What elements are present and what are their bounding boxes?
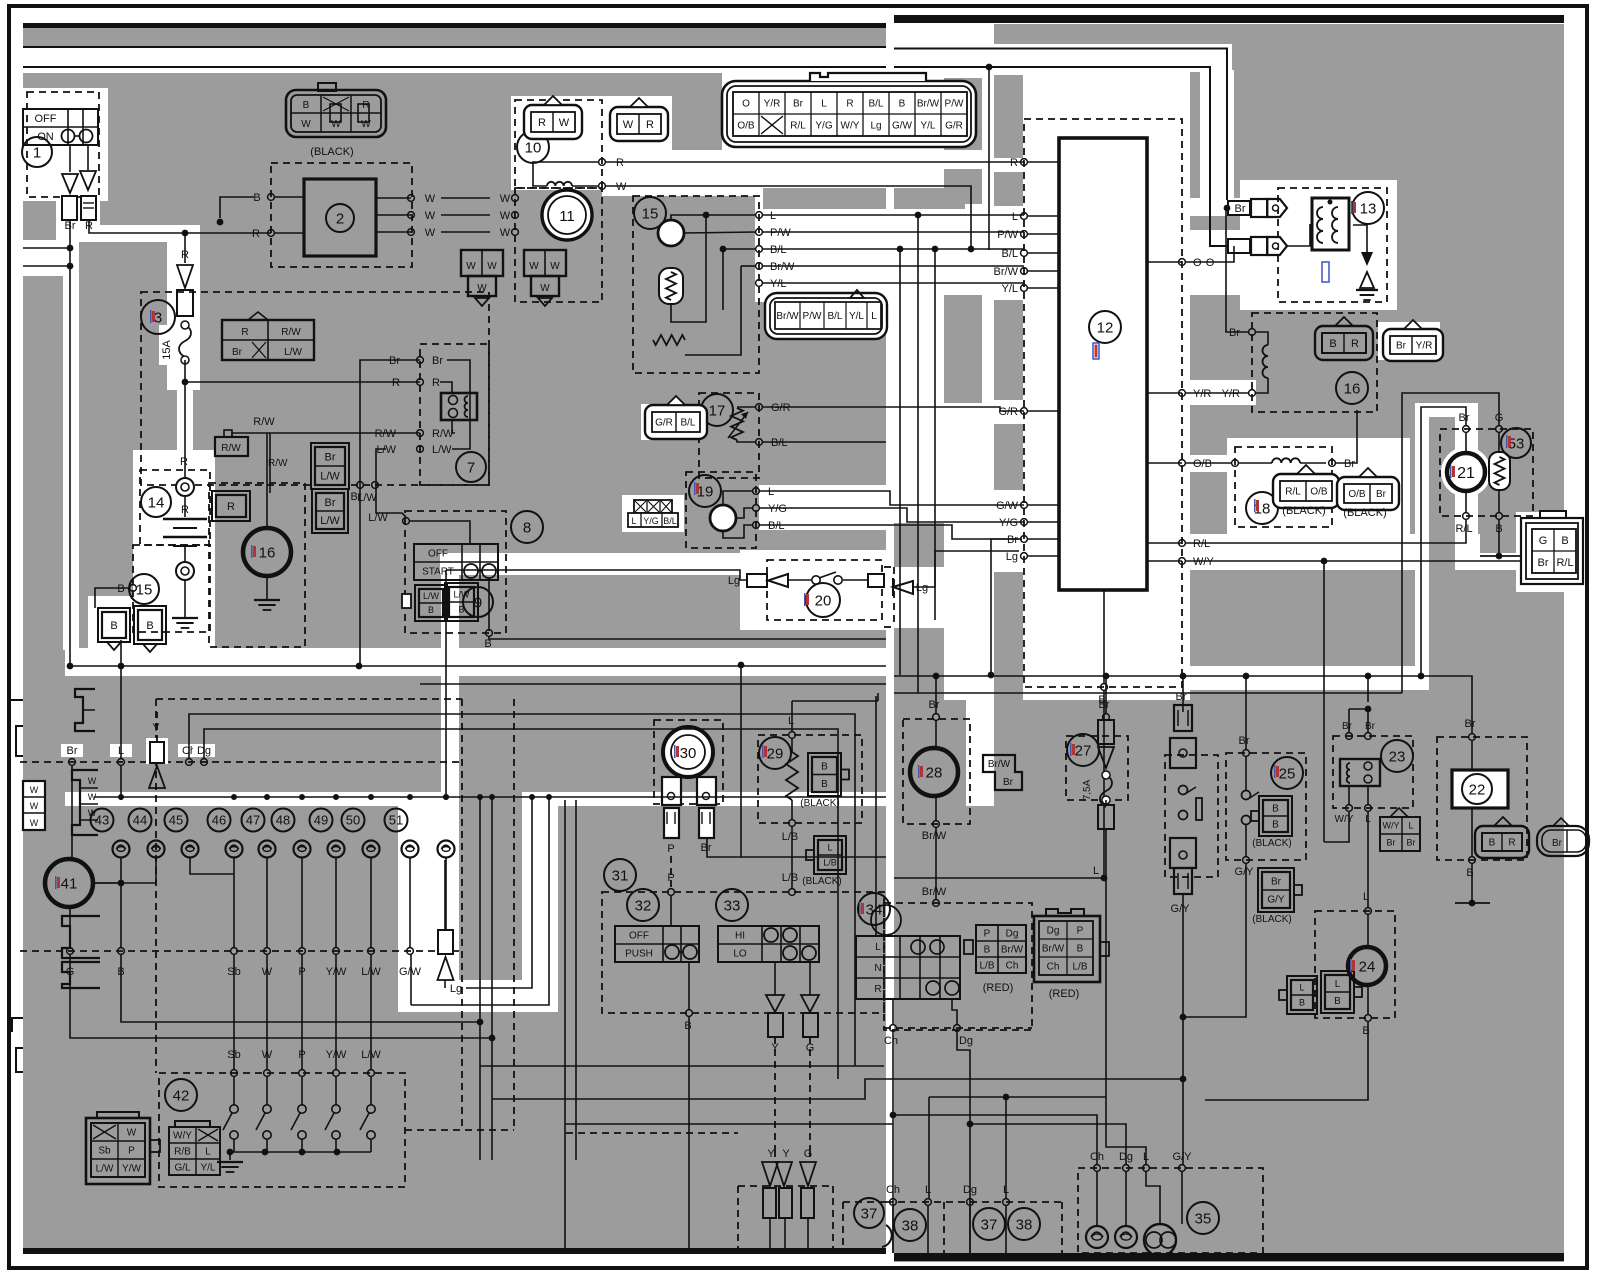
comp34 RED connectors: [976, 925, 1026, 973]
L wire comp23 to comp24: [1367, 811, 1369, 908]
svg-text:44: 44: [133, 813, 147, 828]
svg-text:B/L: B/L: [771, 437, 788, 449]
comp7 ports: [417, 357, 424, 364]
comp21 ports: [1463, 426, 1470, 433]
wire Br down left column: [69, 220, 71, 666]
dashed meter line bottom: [566, 1132, 738, 1134]
L wire to comp34: [875, 696, 877, 936]
ECU Br exit down to rail: [991, 539, 1022, 675]
svg-text:OFF: OFF: [35, 113, 57, 125]
comp19 connector LYGBL: [634, 500, 672, 513]
svg-text:Br/W: Br/W: [922, 886, 947, 898]
svg-text:L: L: [1408, 821, 1413, 831]
svg-text:B: B: [458, 605, 464, 615]
connector R pod: [216, 495, 246, 517]
R/L wire comp21 to ECU: [1186, 519, 1466, 543]
svg-text:Br: Br: [67, 745, 78, 757]
comp30 P wire: [670, 856, 672, 889]
svg-text:35: 35: [1195, 1210, 1212, 1227]
comp16 ground: [266, 576, 268, 600]
comp10 connector R|W: [524, 105, 582, 139]
svg-text:32: 32: [635, 897, 652, 914]
svg-text:W: W: [616, 181, 627, 193]
B rail right page: [741, 856, 886, 858]
svg-text:3: 3: [154, 309, 162, 326]
svg-text:37: 37: [861, 1205, 878, 1222]
svg-text:W: W: [500, 193, 511, 205]
svg-text:L/W: L/W: [357, 492, 377, 504]
comp2 R pin: [268, 230, 275, 237]
svg-text:R: R: [1010, 157, 1018, 169]
svg-text:Br/W: Br/W: [776, 311, 799, 322]
svg-text:Ch: Ch: [1090, 1151, 1104, 1163]
svg-text:START: START: [422, 567, 454, 578]
svg-text:B: B: [821, 779, 828, 790]
L feed comp35: [1106, 1097, 1146, 1165]
thin rule 2 left: [23, 66, 886, 68]
svg-text:Br/W: Br/W: [917, 99, 940, 110]
connector OB/Br: [1337, 477, 1399, 510]
svg-text:B: B: [899, 99, 906, 110]
circled 2: [326, 204, 354, 232]
Ch Dg long wires: [189, 714, 855, 1066]
comp10 ports: [599, 159, 606, 166]
gray islands: [994, 75, 1023, 158]
svg-text:B/L: B/L: [768, 520, 785, 532]
svg-text:Br: Br: [1271, 877, 1282, 888]
svg-text:R: R: [874, 984, 881, 995]
svg-text:7,5A: 7,5A: [1082, 779, 1093, 800]
svg-text:O: O: [742, 99, 750, 110]
svg-text:Y/G: Y/G: [768, 503, 787, 515]
svg-text:W: W: [540, 283, 550, 294]
comp20 dashed box: [767, 560, 882, 620]
svg-text:O/B: O/B: [737, 121, 755, 132]
left edge coupler 2: [72, 770, 98, 835]
B pod connectors: [102, 612, 126, 638]
ECU black rectangle: [1059, 138, 1147, 590]
comp7 wires: [447, 360, 470, 449]
thin rule 1 left: [23, 46, 886, 48]
svg-text:W: W: [623, 119, 634, 131]
svg-text:16: 16: [1344, 380, 1361, 397]
circled 38a: [894, 1209, 926, 1241]
svg-text:W/Y: W/Y: [1335, 814, 1354, 825]
lamp number circles 43-51: [91, 809, 114, 832]
svg-text:Ch: Ch: [884, 1035, 898, 1047]
Lg lower white channel: [522, 792, 556, 1012]
svg-text:R: R: [432, 377, 440, 389]
svg-text:R: R: [846, 99, 853, 110]
svg-text:Br: Br: [1229, 327, 1240, 339]
svg-text:13: 13: [1360, 200, 1377, 217]
comp41 connections: [94, 882, 121, 884]
svg-text:12: 12: [1097, 319, 1114, 336]
svg-text:W: W: [262, 1049, 273, 1061]
comp15 dashed box: [133, 545, 210, 632]
svg-text:Br: Br: [1344, 458, 1355, 470]
comp16b connector B|R: [1315, 326, 1373, 360]
svg-text:R/L: R/L: [1285, 487, 1301, 498]
svg-text:(BLACK): (BLACK): [802, 876, 841, 887]
svg-text:17: 17: [709, 402, 726, 419]
svg-text:L: L: [1363, 891, 1369, 903]
wire G/R to ECU: [762, 407, 1024, 411]
svg-text:R: R: [1351, 338, 1359, 350]
svg-text:Ch: Ch: [886, 1184, 900, 1196]
connector B/B black: [1263, 800, 1288, 832]
svg-text:L: L: [788, 715, 794, 727]
comp31 handlebar switch box: [602, 892, 884, 1013]
L rail right page: [894, 692, 1402, 694]
svg-text:L/W: L/W: [453, 590, 470, 600]
svg-text:R: R: [1508, 838, 1515, 849]
svg-text:Br: Br: [432, 355, 443, 367]
svg-text:Y/G: Y/G: [643, 516, 659, 526]
circled 11 CDI double: [542, 190, 592, 240]
svg-text:Br/W: Br/W: [770, 261, 795, 273]
comp32 start/stop: [627, 889, 659, 921]
svg-text:Sb: Sb: [227, 1049, 240, 1061]
comp18 connector RL/OB: [1273, 474, 1339, 508]
svg-text:R: R: [241, 327, 248, 338]
svg-text:Br: Br: [701, 842, 712, 854]
svg-text:P/W: P/W: [770, 227, 791, 239]
comp19 wires to ECU with jogs: [759, 491, 1024, 505]
svg-text:B: B: [1561, 535, 1568, 547]
comp2 dashed box: [271, 163, 412, 267]
big connector 18p shell: [722, 81, 976, 147]
svg-text:B/L: B/L: [663, 516, 677, 526]
svg-text:Ch: Ch: [1006, 961, 1019, 972]
circled 41 bold: [45, 859, 93, 907]
svg-text:(BLACK): (BLACK): [800, 798, 839, 809]
comp53 ports: [1496, 426, 1503, 433]
svg-text:G/Y: G/Y: [1267, 895, 1285, 906]
svg-text:19: 19: [697, 483, 714, 500]
svg-text:Y/R: Y/R: [764, 99, 781, 110]
svg-text:R: R: [252, 228, 260, 240]
wire R down to fuse: [184, 233, 186, 263]
svg-text:W: W: [477, 283, 487, 294]
band line: [94, 796, 886, 798]
svg-text:W: W: [487, 261, 497, 272]
svg-text:Br: Br: [1396, 341, 1407, 352]
svg-text:Br/W: Br/W: [1001, 945, 1024, 956]
svg-text:L: L: [1143, 1151, 1149, 1163]
connector Br right edge: [1537, 826, 1589, 856]
circled 17: [701, 394, 733, 426]
circled 15: [129, 574, 159, 604]
svg-text:Br: Br: [1176, 691, 1187, 703]
svg-text:G/W: G/W: [996, 500, 1019, 512]
svg-text:B: B: [117, 583, 124, 595]
svg-text:O/B: O/B: [1310, 487, 1328, 498]
connector WY L Br Br: [1380, 817, 1420, 851]
comp20 diode right: [893, 581, 913, 594]
comp35 lamps: [1096, 1171, 1098, 1226]
circled 20: [806, 583, 840, 617]
svg-text:W: W: [425, 193, 436, 205]
svg-text:R: R: [227, 501, 235, 513]
svg-text:Dg: Dg: [963, 1184, 977, 1196]
main fuse body: [177, 290, 193, 316]
svg-text:W: W: [500, 210, 511, 222]
svg-text:G/Y: G/Y: [1171, 903, 1191, 915]
comp19 ports: [753, 488, 760, 495]
gray field left page: [23, 28, 886, 1253]
svg-text:W: W: [425, 210, 436, 222]
svg-text:Br: Br: [1007, 534, 1018, 546]
svg-text:Y/L: Y/L: [200, 1163, 215, 1174]
comp19 inner wires: [723, 491, 753, 505]
svg-text:Y/G: Y/G: [815, 121, 832, 132]
comp15s dashed box: [633, 196, 759, 373]
svg-text:Y/R: Y/R: [1222, 388, 1240, 400]
meter lamps: [113, 841, 130, 858]
circled 15s: [634, 197, 666, 229]
svg-text:Br/W: Br/W: [994, 266, 1019, 278]
battery lower terminal: [176, 562, 194, 580]
svg-text:B: B: [428, 605, 434, 615]
svg-text:OFF: OFF: [428, 549, 448, 560]
svg-text:L: L: [768, 486, 774, 498]
svg-text:Br: Br: [1376, 489, 1387, 500]
svg-text:27: 27: [1075, 742, 1092, 759]
svg-text:R: R: [646, 119, 654, 131]
wire L/W comp7 to comp8: [376, 449, 406, 517]
left Br rail white band: [65, 648, 886, 676]
svg-text:L: L: [205, 1147, 211, 1158]
comp16b ports: [1249, 329, 1256, 336]
svg-text:23: 23: [1389, 748, 1406, 765]
svg-text:R/L: R/L: [1455, 523, 1472, 535]
svg-text:W/Y: W/Y: [1193, 556, 1214, 568]
svg-text:47: 47: [246, 813, 260, 828]
svg-text:38: 38: [1016, 1216, 1033, 1233]
svg-text:Sb: Sb: [98, 1146, 111, 1157]
svg-text:PUSH: PUSH: [625, 949, 653, 960]
svg-text:OFF: OFF: [629, 931, 649, 942]
comp19 dashed box: [686, 472, 756, 548]
Br rail taps: [933, 673, 940, 680]
comp30 terminals: [662, 777, 681, 805]
svg-text:Br: Br: [1465, 718, 1476, 730]
svg-text:B: B: [146, 620, 153, 632]
svg-text:L/W: L/W: [320, 515, 340, 527]
svg-text:20: 20: [815, 592, 832, 609]
svg-text:W: W: [127, 1128, 137, 1139]
svg-text:Br: Br: [1365, 721, 1376, 732]
svg-text:G/L: G/L: [174, 1163, 191, 1174]
circled 18: [1246, 492, 1278, 524]
svg-text:25: 25: [1279, 765, 1296, 782]
Lg route: [466, 797, 532, 988]
svg-text:(BLACK): (BLACK): [1282, 505, 1325, 517]
svg-text:Y/L: Y/L: [770, 278, 787, 290]
svg-text:L/B: L/B: [1072, 962, 1087, 973]
svg-text:(BLACK): (BLACK): [1343, 507, 1386, 519]
svg-text:Dg: Dg: [1006, 929, 1019, 940]
G wire route: [1402, 393, 1499, 693]
svg-text:R: R: [180, 456, 188, 468]
svg-text:R/W: R/W: [432, 428, 454, 440]
comp10 dashed box: [515, 100, 602, 188]
comp14 dashed box: [140, 470, 210, 545]
battery top terminal: [176, 478, 194, 496]
right band Br rail: [894, 675, 1421, 677]
svg-text:L/W: L/W: [284, 347, 302, 358]
svg-text:Br: Br: [1552, 838, 1563, 849]
svg-text:Y/L: Y/L: [849, 311, 864, 322]
svg-text:L: L: [1093, 865, 1099, 877]
comp27 fuse: [1066, 736, 1128, 800]
svg-text:R/W: R/W: [281, 327, 301, 338]
comp8 B port bottom: [488, 578, 490, 631]
lamps 37 38 dashed boxes: [843, 1201, 886, 1203]
circled 12: [1089, 311, 1121, 343]
svg-text:P: P: [1077, 926, 1084, 937]
svg-text:B: B: [1077, 944, 1084, 955]
svg-text:L/W: L/W: [96, 1164, 114, 1175]
thin rule 1 right + corner down: [894, 49, 1227, 201]
svg-text:W: W: [466, 261, 476, 272]
circled 8: [511, 511, 543, 543]
svg-text:Br: Br: [325, 497, 336, 509]
connector W|R: [610, 107, 668, 141]
svg-text:1: 1: [33, 144, 41, 161]
svg-text:L: L: [1003, 1184, 1009, 1196]
svg-text:(BLACK): (BLACK): [1252, 838, 1291, 849]
circled 37 left: [854, 1198, 884, 1228]
svg-text:W: W: [301, 119, 311, 130]
fuse element 15A: [179, 325, 191, 357]
svg-text:21: 21: [1457, 465, 1475, 482]
comp8 port L/W: [403, 518, 410, 525]
svg-text:L: L: [1299, 983, 1304, 993]
Br wire comp16b: [1226, 208, 1249, 332]
connector Br/GY black: [1262, 872, 1290, 908]
svg-text:B: B: [984, 945, 991, 956]
circled 21 bold halo: [1441, 447, 1491, 497]
svg-text:HI: HI: [735, 931, 745, 942]
connector Br|Y/R: [1383, 329, 1443, 361]
svg-text:O/B: O/B: [1348, 489, 1366, 500]
svg-text:Br: Br: [1342, 721, 1353, 732]
comp13 relay box: [1312, 198, 1349, 250]
comp18 dashed box: [1235, 447, 1332, 527]
svg-text:R/W: R/W: [375, 428, 397, 440]
comp2 right pins W: [376, 197, 411, 199]
comp35 dashed box: [1078, 1168, 1263, 1253]
svg-text:Br: Br: [1387, 838, 1396, 848]
left edge coupler 1: [75, 689, 95, 731]
svg-text:49: 49: [314, 813, 328, 828]
band corner verticals: [479, 797, 481, 1160]
comp17 variable resistor: [731, 408, 743, 440]
main switch 1 table: [23, 109, 98, 145]
svg-text:B: B: [303, 100, 310, 111]
Ch feed comp35: [893, 1115, 1097, 1165]
comp23 relay: [1333, 736, 1413, 808]
wire Br-L/W connectors: [269, 456, 271, 493]
W connector blocks: [461, 250, 503, 276]
svg-text:B/L: B/L: [827, 311, 842, 322]
top thick rule right page: [894, 15, 1564, 23]
svg-text:B/L: B/L: [868, 99, 883, 110]
svg-text:W/Y: W/Y: [1383, 821, 1400, 831]
comp13 ground arrow: [1353, 225, 1367, 252]
comp20 fuse rect: [747, 574, 767, 587]
bullet connectors: [62, 174, 78, 193]
svg-text:G/R: G/R: [945, 121, 963, 132]
svg-text:Br: Br: [1099, 699, 1110, 711]
svg-text:31: 31: [612, 867, 629, 884]
svg-text:L/B: L/B: [782, 872, 799, 884]
svg-text:42: 42: [173, 1087, 190, 1104]
svg-text:B: B: [1329, 338, 1336, 350]
circled 19: [689, 475, 721, 507]
W/Y wire down: [1324, 811, 1349, 842]
svg-text:L: L: [631, 516, 636, 526]
O wire from ECU to comp13: [1186, 246, 1234, 262]
circled 7: [456, 452, 486, 482]
svg-text:37: 37: [981, 1216, 998, 1233]
connector dashed row y951: [20, 950, 459, 952]
svg-text:O: O: [1206, 257, 1215, 269]
meter wires to connector row: [69, 907, 71, 948]
dashed box YG lamps: [738, 1185, 833, 1187]
comp42 dashed box: [159, 1073, 405, 1187]
comp2 ground wire: [220, 197, 254, 218]
comp34 wires down: [892, 999, 894, 1025]
svg-text:L/W: L/W: [432, 444, 452, 456]
svg-text:W: W: [30, 818, 39, 828]
B wire to rail: [120, 640, 122, 666]
svg-text:28: 28: [926, 764, 943, 781]
comp7 dashed box: [420, 344, 489, 485]
comp18 Br wire up: [1336, 410, 1357, 463]
svg-text:L: L: [1012, 211, 1018, 223]
svg-text:33: 33: [724, 897, 741, 914]
svg-text:L/W: L/W: [368, 512, 388, 524]
svg-text:29: 29: [767, 745, 784, 762]
svg-text:R/L: R/L: [1556, 557, 1573, 569]
bottom thick rule left page: [23, 1248, 886, 1254]
ECU left ports: [1021, 159, 1028, 166]
Y fuse to meter: [146, 738, 168, 764]
circled 1: [22, 137, 52, 167]
comp30 Br wire: [707, 665, 741, 857]
svg-text:R/B: R/B: [174, 1147, 191, 1158]
svg-text:Ch: Ch: [1047, 962, 1060, 973]
svg-text:W: W: [88, 792, 97, 802]
junction top right: [986, 64, 993, 71]
svg-text:L/W: L/W: [320, 470, 340, 482]
white top band left: [23, 48, 886, 73]
svg-text:W/Y: W/Y: [173, 1131, 192, 1142]
edge connector WWW: [23, 781, 45, 830]
svg-text:W: W: [425, 227, 436, 239]
G/W route: [411, 797, 549, 1005]
circled 42: [165, 1079, 197, 1111]
svg-text:LO: LO: [733, 949, 747, 960]
svg-text:W: W: [500, 227, 511, 239]
svg-text:14: 14: [148, 494, 165, 511]
bottom lamp ports: [890, 1199, 897, 1206]
svg-text:Y/R: Y/R: [1193, 388, 1211, 400]
svg-text:O: O: [1193, 257, 1202, 269]
